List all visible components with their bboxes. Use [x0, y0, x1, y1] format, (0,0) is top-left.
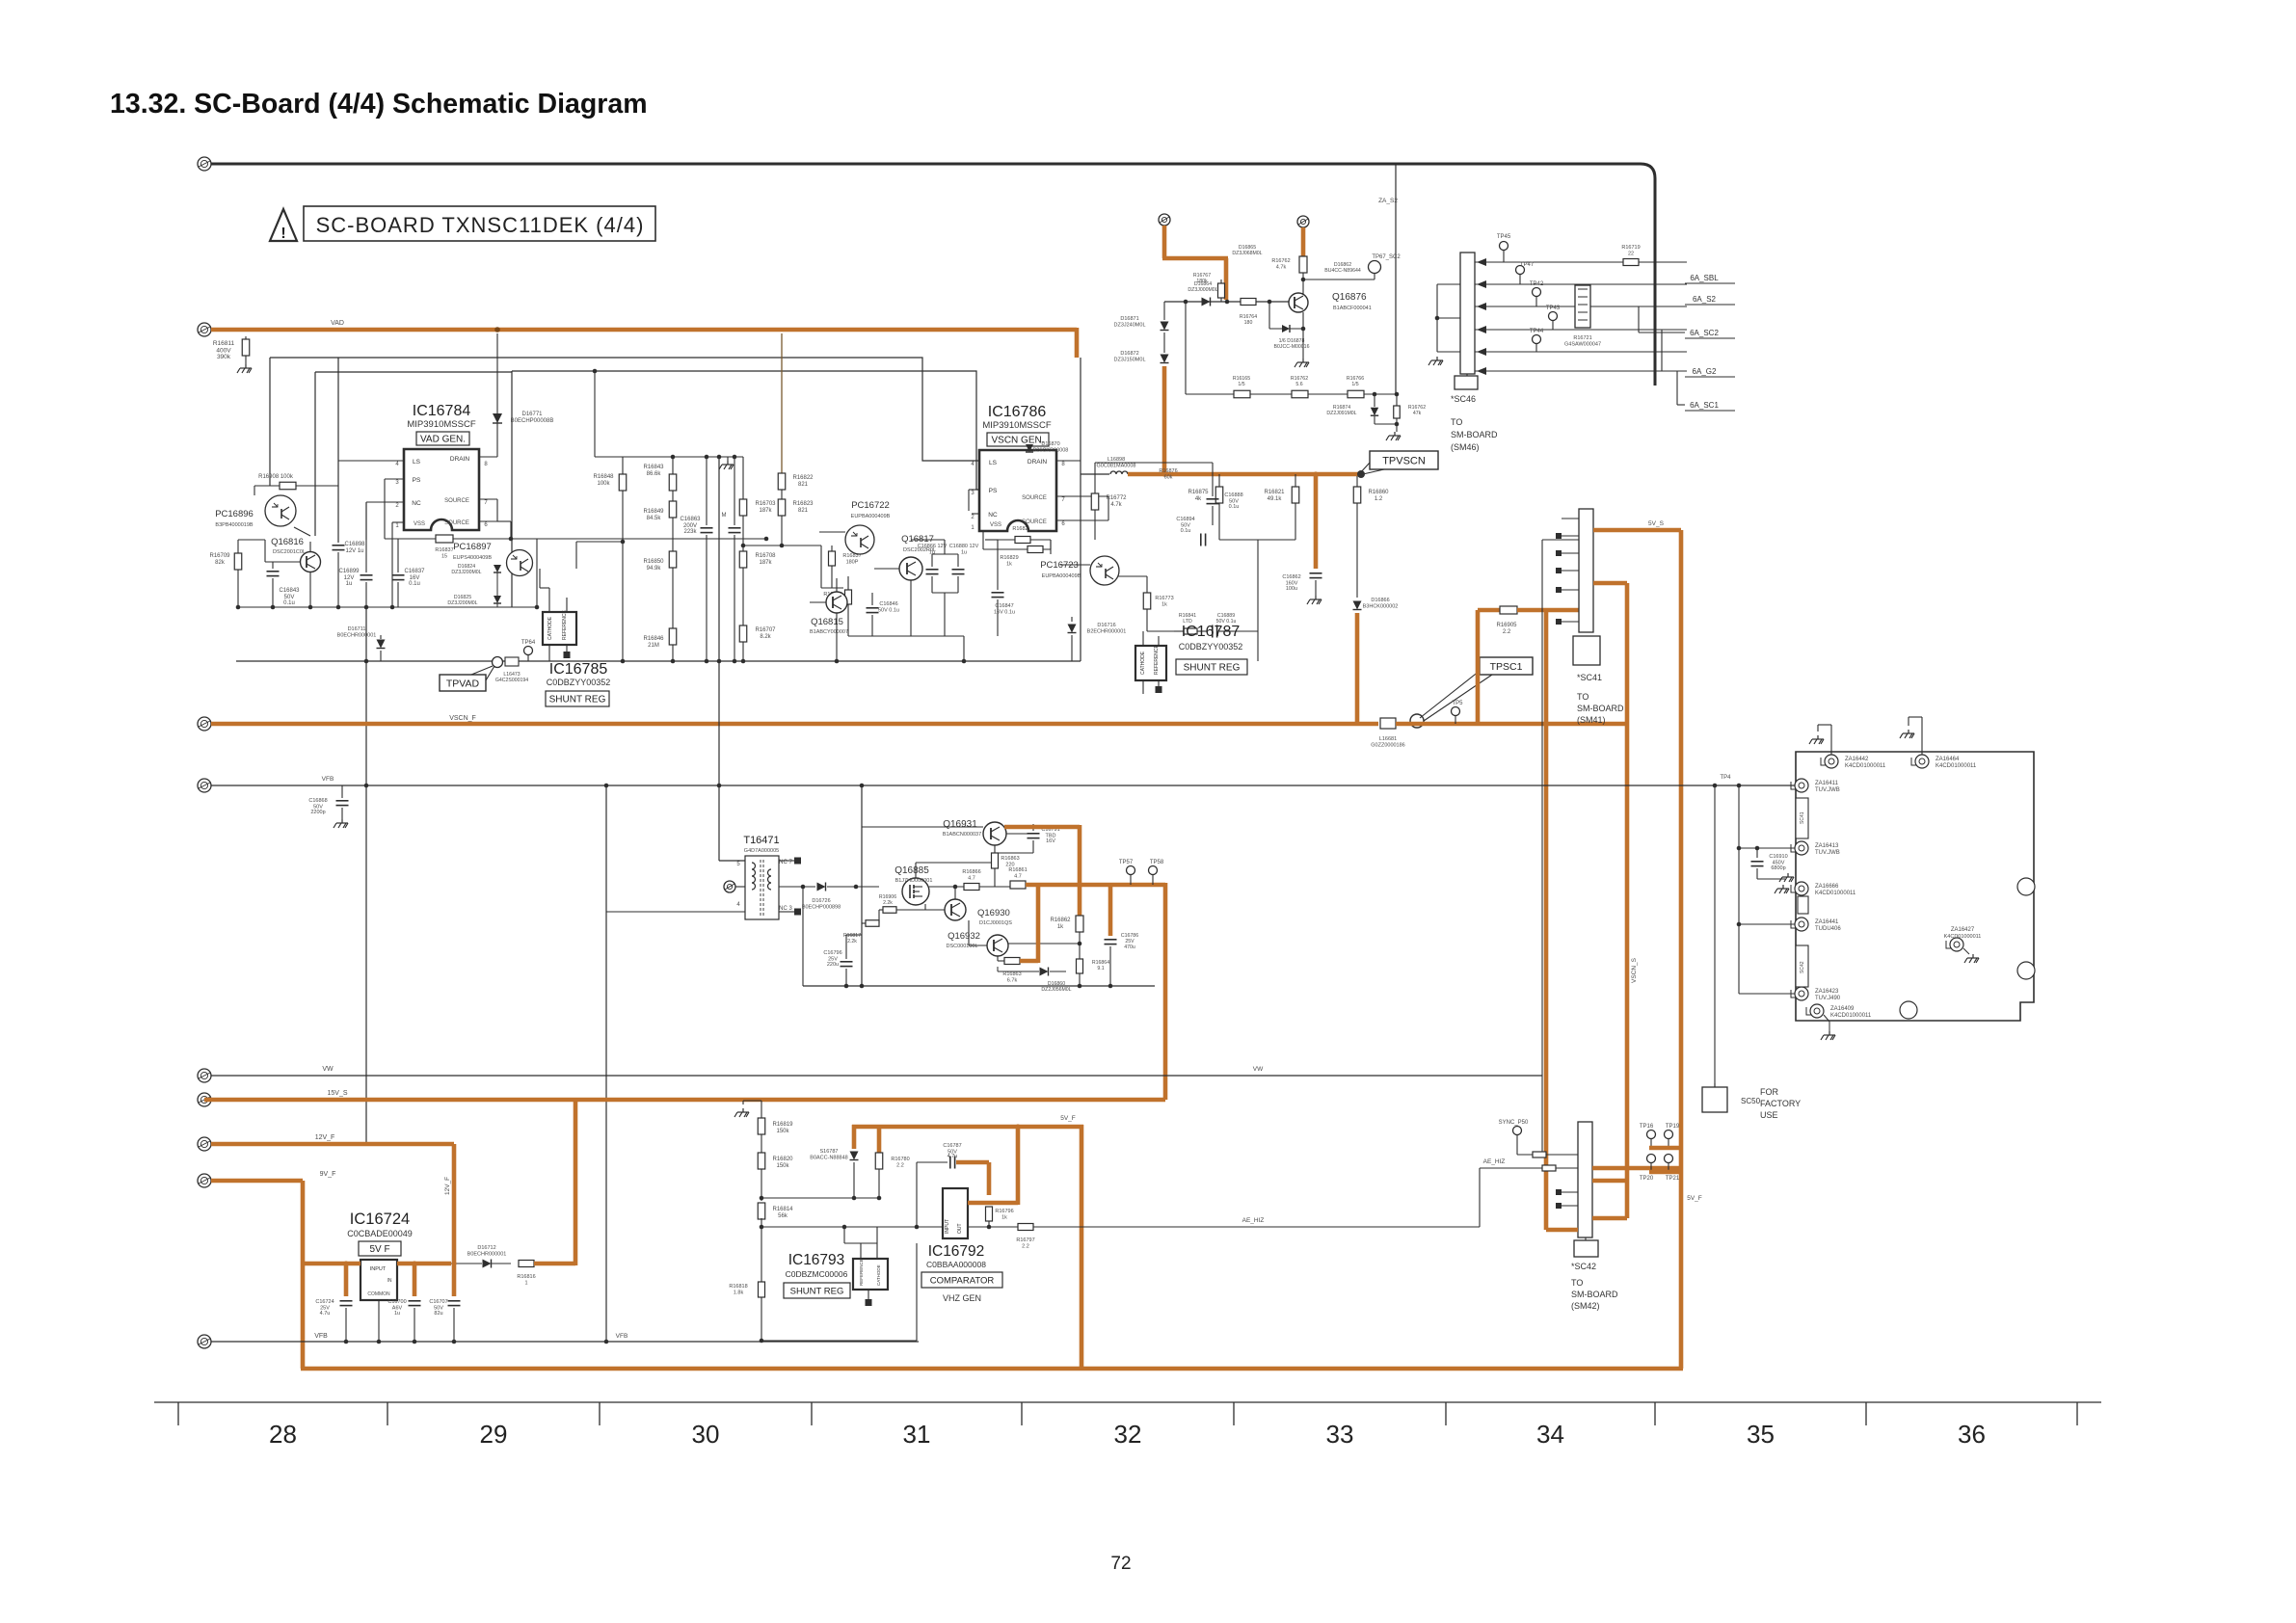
resistor R16860 hang	[1356, 476, 1358, 487]
svg-text:DSC2001C0L: DSC2001C0L	[273, 549, 306, 555]
connector pin at left y=1141	[198, 1093, 211, 1106]
svg-text:50V 0.1u: 50V 0.1u	[878, 608, 899, 614]
terminal squares T16471	[779, 860, 794, 862]
svg-text:2.2k: 2.2k	[883, 900, 893, 906]
callout TPVSCN	[1370, 451, 1438, 469]
svg-text:S16787: S16787	[820, 1149, 839, 1155]
node TPVSCN	[1357, 470, 1365, 478]
svg-text:1u: 1u	[961, 550, 967, 556]
svg-text:C16786: C16786	[1121, 933, 1138, 939]
svg-text:C16843: C16843	[279, 588, 300, 594]
connector SC50 box	[1702, 1087, 1727, 1112]
svg-text:USE: USE	[1760, 1110, 1778, 1120]
svg-text:FACTORY: FACTORY	[1760, 1099, 1801, 1108]
svg-text:R16841: R16841	[1179, 613, 1196, 619]
orange drop TPVSCN to VSCN_F	[1355, 613, 1360, 724]
svg-text:ZA_S2: ZA_S2	[1378, 198, 1398, 204]
svg-text:REFERENCE: REFERENCE	[1154, 644, 1160, 675]
wire PS drop left	[511, 371, 513, 607]
board pin ZA16427	[1950, 938, 1963, 951]
svg-text:SM-BOARD: SM-BOARD	[1451, 430, 1498, 439]
wire AE_HIZ	[968, 1226, 1480, 1228]
resistor R16819	[758, 1118, 765, 1134]
svg-text:R16823: R16823	[792, 501, 814, 507]
svg-text:1k: 1k	[1001, 1215, 1007, 1221]
svg-text:TP45: TP45	[1497, 234, 1511, 240]
node TPVAD	[493, 657, 503, 668]
connector pin at left y=1187	[198, 1137, 211, 1151]
svg-text:0.1u: 0.1u	[1229, 504, 1240, 510]
pin circle B1	[1159, 214, 1170, 226]
board pin ZA16423	[1795, 987, 1808, 1000]
svg-text:C16898: C16898	[344, 542, 365, 547]
svg-text:R16905: R16905	[1496, 623, 1517, 628]
warning triangle	[270, 209, 297, 241]
shunt IC16793 box	[853, 1259, 888, 1290]
wire SC46 row 5	[1475, 351, 1687, 353]
wire sync row	[1517, 1154, 1578, 1156]
resistor R16905 on orange	[1478, 608, 1500, 613]
connector pin at left y=751	[198, 717, 211, 731]
opto PC16723	[1090, 556, 1119, 585]
wire long vertical x380	[365, 502, 367, 540]
resistor R16811	[245, 336, 247, 339]
svg-text:*SC41: *SC41	[1577, 673, 1602, 682]
svg-text:TP67_SC2: TP67_SC2	[1372, 254, 1401, 260]
svg-text:NC: NC	[988, 512, 998, 519]
resistor R16709	[237, 540, 239, 553]
resistor R16814	[758, 1203, 765, 1219]
board pin ZA16409	[1810, 1004, 1824, 1018]
svg-text:COMPARATOR: COMPARATOR	[930, 1275, 995, 1286]
capacitor C16707	[452, 1264, 457, 1296]
wire SC46 row 2	[1475, 283, 1687, 285]
diode D16872	[1161, 355, 1169, 363]
wire PS bus lower	[512, 371, 979, 490]
svg-text:5V F: 5V F	[369, 1244, 389, 1255]
resistor R16773	[1146, 586, 1148, 593]
wire y566 row	[743, 545, 821, 546]
wire baseline main	[236, 660, 1081, 662]
diode D16860	[1040, 968, 1049, 976]
svg-text:MIP3910MSSCF: MIP3910MSSCF	[407, 419, 475, 430]
ruler tick	[1021, 1402, 1023, 1425]
svg-text:PC16897: PC16897	[453, 542, 492, 552]
svg-text:ZA16423: ZA16423	[1815, 989, 1839, 995]
svg-text:29: 29	[480, 1420, 508, 1449]
test point TP43	[1549, 312, 1558, 321]
svg-text:SOURCE: SOURCE	[1022, 495, 1047, 501]
test point TP58	[1149, 866, 1158, 875]
svg-text:15V_S: 15V_S	[327, 1090, 347, 1097]
svg-text:R16843: R16843	[643, 465, 664, 470]
ruler tick	[1865, 1402, 1867, 1425]
wire vertical x629	[605, 785, 607, 1342]
wire SC46 row 1	[1475, 261, 1687, 263]
diode D16874 zener	[1374, 394, 1375, 407]
diode D16711	[377, 640, 386, 649]
svg-text:TP44: TP44	[1530, 329, 1544, 334]
inductor L16473	[505, 657, 519, 666]
resistor R16816	[519, 1261, 534, 1267]
resistor R16908	[254, 485, 280, 487]
wire shunt box wires	[548, 588, 550, 612]
svg-text:2200p: 2200p	[310, 810, 325, 815]
svg-text:C16880 12V: C16880 12V	[949, 544, 979, 549]
resistor R16820	[758, 1153, 765, 1169]
ruler tick	[2076, 1402, 2078, 1425]
resistor R16837b	[831, 545, 833, 551]
wire outer bus drop x280	[269, 358, 271, 486]
svg-text:TO: TO	[1451, 417, 1462, 427]
svg-text:C16847: C16847	[995, 603, 1013, 609]
svg-text:R16811: R16811	[213, 340, 235, 347]
svg-text:INPUT: INPUT	[370, 1266, 387, 1272]
svg-text:2.2k: 2.2k	[847, 939, 857, 945]
board conn SC41 rect	[1796, 798, 1808, 838]
svg-text:R16797: R16797	[1016, 1237, 1034, 1243]
orange vertical x1603	[1544, 610, 1549, 1230]
ground IC16793 top	[734, 1108, 749, 1117]
svg-text:12V_F: 12V_F	[444, 1177, 451, 1195]
orange stub pin B1	[1162, 226, 1167, 258]
svg-text:C16700: C16700	[387, 1299, 406, 1305]
orange vertical x1744	[1679, 530, 1684, 1369]
svg-text:1u: 1u	[346, 581, 353, 587]
wire ic16787 pins	[1142, 631, 1144, 646]
wire top rail	[211, 164, 1655, 386]
svg-text:R16772: R16772	[1106, 495, 1127, 501]
svg-text:SOURCE: SOURCE	[1022, 519, 1047, 525]
svg-text:Q16876: Q16876	[1332, 292, 1367, 303]
diode D16864	[1202, 298, 1211, 306]
resistor R16829	[985, 539, 998, 541]
svg-text:5V_F: 5V_F	[1060, 1115, 1076, 1122]
svg-text:K4CD01000011: K4CD01000011	[1830, 1013, 1872, 1019]
svg-text:R16908 100k: R16908 100k	[258, 474, 294, 480]
svg-text:REFERENCE: REFERENCE	[859, 1259, 864, 1286]
svg-text:COMMON: COMMON	[367, 1291, 390, 1297]
wire c16847 top	[997, 540, 999, 578]
svg-text:C0DBZYY00352: C0DBZYY00352	[1179, 642, 1243, 652]
svg-text:6A_SBL: 6A_SBL	[1690, 274, 1719, 282]
transistor Q16931	[983, 822, 1006, 845]
svg-text:15: 15	[441, 554, 447, 560]
svg-text:100u: 100u	[1286, 586, 1297, 592]
orange IC16724 input	[303, 1262, 360, 1266]
svg-text:B0ACC-N88848: B0ACC-N88848	[810, 1156, 847, 1161]
ground sc46	[1428, 357, 1443, 365]
wire q16816 col	[309, 542, 311, 552]
svg-text:13.32. SC-Board (4/4) Schemati: 13.32. SC-Board (4/4) Schematic Diagram	[110, 89, 648, 120]
svg-text:21M: 21M	[648, 643, 659, 649]
svg-text:56k: 56k	[778, 1213, 788, 1219]
svg-text:TPVSCN: TPVSCN	[1382, 455, 1426, 466]
node TPSC1 ring	[1410, 714, 1424, 728]
wire q16885 top	[915, 863, 917, 878]
svg-text:R16703: R16703	[755, 501, 776, 507]
svg-text:CATHODE: CATHODE	[547, 616, 553, 640]
svg-text:R16849: R16849	[643, 509, 664, 515]
svg-text:C16888: C16888	[1224, 492, 1242, 498]
svg-text:470u: 470u	[1124, 945, 1135, 950]
svg-text:47k: 47k	[1413, 411, 1422, 416]
svg-text:SC42: SC42	[1800, 961, 1805, 973]
svg-text:R16165: R16165	[1233, 376, 1250, 382]
svg-text:IC16793: IC16793	[788, 1252, 845, 1268]
wire ladder top rail	[595, 456, 743, 458]
svg-text:L16473: L16473	[503, 672, 520, 678]
wire board row1	[1542, 785, 1795, 786]
svg-text:4.7u: 4.7u	[948, 1154, 958, 1159]
wire collect row	[761, 1197, 879, 1199]
resistor R16764	[1241, 299, 1256, 306]
connector SC46 tail box	[1455, 376, 1478, 389]
svg-text:R16863: R16863	[1002, 971, 1021, 977]
svg-text:VSS: VSS	[990, 522, 1001, 528]
resistor R16837	[436, 535, 453, 543]
transistor Q16816	[301, 552, 321, 572]
comparator IC16792 box	[943, 1188, 968, 1238]
ground za16427	[1963, 948, 1969, 954]
svg-text:B1J7HD000001: B1J7HD000001	[895, 878, 933, 884]
wire vertical ZA_S2 drop	[1395, 164, 1397, 394]
svg-text:49.1k: 49.1k	[1268, 496, 1283, 502]
svg-text:VAD GEN.: VAD GEN.	[420, 435, 466, 445]
svg-text:EUPBA000409B: EUPBA000409B	[851, 514, 891, 519]
svg-text:SHUNT REG: SHUNT REG	[1184, 663, 1241, 674]
wire board vertical x1804	[1738, 785, 1740, 994]
svg-text:VSCN_S: VSCN_S	[1631, 957, 1638, 983]
pin circle B2	[1297, 216, 1309, 227]
svg-text:VSCN_F: VSCN_F	[449, 715, 476, 722]
capacitor C16787	[949, 1157, 951, 1169]
svg-text:VSS: VSS	[414, 521, 425, 527]
opto PC16896	[265, 495, 296, 526]
orange tp row 2	[1649, 1170, 1683, 1175]
resistor R16849	[669, 501, 677, 518]
test point TP44	[1533, 335, 1541, 344]
wire IC16786 nc stub	[972, 513, 979, 515]
svg-text:FOR: FOR	[1760, 1087, 1778, 1097]
svg-text:6.7k: 6.7k	[1007, 978, 1018, 984]
wire IC16784 drain stub	[479, 456, 497, 458]
svg-text:B2ECHR000001: B2ECHR000001	[1087, 629, 1127, 635]
capacitor C16837	[397, 539, 399, 572]
svg-text:TP19: TP19	[1666, 1124, 1680, 1130]
svg-text:R16846: R16846	[643, 636, 664, 642]
svg-text:K4CD01000011: K4CD01000011	[1944, 934, 1982, 940]
net 12V_F orange trace	[211, 1142, 454, 1147]
svg-text:MIP3910MSSCF: MIP3910MSSCF	[982, 420, 1051, 431]
svg-text:4.7k: 4.7k	[1110, 502, 1122, 508]
wire r16772 top	[1094, 463, 1096, 487]
wire r16875 r16821 join	[1219, 539, 1295, 541]
wire 6A_SC1 jog	[1676, 371, 1678, 405]
ground cluster	[1386, 432, 1401, 440]
SC42 terminal squares	[1556, 1189, 1562, 1195]
connector SC42 tail box	[1574, 1240, 1598, 1257]
diode D16878 bypass	[1268, 302, 1270, 329]
orange riser from VSCN_F to SC41 x1533	[1476, 610, 1481, 726]
svg-text:C16707: C16707	[429, 1299, 447, 1305]
ground za16409	[1824, 1015, 1829, 1022]
svg-text:D16771: D16771	[521, 412, 543, 417]
svg-text:C0DBZYY00352: C0DBZYY00352	[547, 678, 611, 687]
wire pc16723	[1060, 564, 1090, 566]
svg-text:R16818: R16818	[729, 1284, 747, 1290]
svg-text:12V_F: 12V_F	[315, 1134, 335, 1141]
resistor R16762v	[1396, 394, 1398, 406]
svg-text:T16471: T16471	[743, 835, 779, 846]
wire q16815	[810, 601, 826, 603]
test point TP19	[1665, 1131, 1673, 1139]
svg-text:VW: VW	[322, 1066, 334, 1073]
svg-text:D16866: D16866	[1371, 598, 1389, 603]
svg-text:D16824: D16824	[458, 564, 475, 570]
resistor R16822	[778, 473, 786, 490]
svg-text:32: 32	[1114, 1420, 1142, 1449]
diode D16712	[483, 1260, 492, 1268]
svg-text:R16866: R16866	[962, 869, 980, 875]
svg-text:TP4: TP4	[1720, 775, 1731, 781]
svg-text:DZ3J000M0L: DZ3J000M0L	[1188, 287, 1217, 293]
svg-text:180: 180	[1244, 320, 1253, 326]
transistor Q16932	[987, 935, 1008, 956]
svg-text:PS: PS	[413, 477, 421, 484]
svg-text:12V 1u: 12V 1u	[345, 548, 363, 554]
resistor R16823	[778, 499, 786, 516]
svg-text:PC16722: PC16722	[851, 500, 890, 511]
svg-text:D16711: D16711	[348, 626, 366, 632]
test point TP45	[1500, 242, 1508, 251]
svg-text:L16898: L16898	[1108, 457, 1125, 463]
svg-text:86.6k: 86.6k	[647, 471, 662, 477]
wire D16862 row	[1303, 279, 1375, 280]
resistor R16875 hang	[1218, 474, 1220, 487]
svg-text:D16825: D16825	[454, 595, 471, 600]
svg-text:TP42: TP42	[1530, 281, 1544, 287]
svg-text:TUV.JWB: TUV.JWB	[1815, 787, 1840, 793]
svg-text:R16848: R16848	[593, 474, 614, 480]
svg-text:94.9k: 94.9k	[647, 566, 662, 572]
net VAD orange trace	[211, 328, 1077, 333]
board conn SC42 rect	[1796, 945, 1808, 987]
svg-text:TO: TO	[1571, 1278, 1583, 1288]
resistor R16796	[986, 1207, 993, 1221]
svg-text:SC41: SC41	[1800, 811, 1805, 824]
wire rail VFB	[211, 1341, 919, 1343]
svg-text:33: 33	[1326, 1420, 1354, 1449]
test point TP57	[1127, 866, 1135, 875]
svg-text:1u: 1u	[929, 550, 935, 556]
diode D16824	[494, 565, 501, 572]
inductor L16896	[1081, 473, 1109, 475]
wire IC16784 PS stub	[385, 478, 404, 480]
wire q16932 base	[969, 945, 987, 946]
net VSCN orange trace y492	[1128, 472, 1361, 477]
wire top right rail	[1095, 462, 1213, 464]
svg-text:4.7k: 4.7k	[1276, 265, 1287, 271]
orange drop x1365 to cap	[1314, 474, 1319, 569]
svg-text:C16899: C16899	[338, 569, 360, 574]
wire board row4	[1739, 993, 1795, 995]
wire inner bus drop x327	[314, 372, 316, 536]
svg-text:IC16792: IC16792	[928, 1243, 985, 1260]
callout TPSC1	[1480, 657, 1533, 675]
capacitor C16843	[272, 562, 274, 569]
svg-text:SHUNT REG: SHUNT REG	[790, 1286, 844, 1296]
svg-text:R16822: R16822	[792, 475, 814, 481]
wire to IC16792	[761, 1226, 943, 1228]
svg-text:VFB: VFB	[314, 1333, 328, 1340]
svg-text:D16862: D16862	[1334, 262, 1351, 268]
svg-text:IC16724: IC16724	[350, 1211, 410, 1228]
connector pin at left y=1392	[198, 1335, 211, 1348]
svg-text:M: M	[722, 513, 727, 519]
function box VAD GEN.	[416, 432, 469, 445]
wire IC16784 source stubs	[479, 498, 497, 500]
capacitor C16894	[1200, 534, 1202, 546]
svg-text:VFB: VFB	[322, 776, 334, 783]
svg-text:C16889: C16889	[1217, 613, 1235, 619]
wire c16796 top	[845, 935, 847, 949]
wire y610 row	[821, 587, 843, 589]
wire vertical x746	[718, 457, 720, 861]
board outline (to CRT socket board)	[1796, 752, 2034, 1021]
resistor R16866	[964, 884, 979, 891]
board pin ZA16464	[1915, 755, 1929, 768]
svg-text:C16868: C16868	[308, 798, 327, 804]
svg-text:100k: 100k	[597, 481, 610, 487]
wire 6A_G2 jog	[1661, 330, 1663, 371]
regulator IC16724 box	[360, 1260, 397, 1300]
wire IC16784 VSS stub	[392, 521, 404, 523]
ruler tick	[177, 1402, 179, 1425]
orange stub pin B2	[1301, 227, 1306, 256]
wire q16931 collector	[994, 845, 996, 853]
svg-text:IC16787: IC16787	[1182, 624, 1241, 640]
svg-text:TPVAD: TPVAD	[446, 678, 480, 689]
svg-text:1: 1	[524, 1281, 527, 1287]
test point TP20	[1647, 1155, 1656, 1163]
svg-text:D16871: D16871	[1120, 316, 1138, 322]
svg-text:SOURCE: SOURCE	[444, 498, 469, 504]
svg-text:821: 821	[798, 508, 809, 514]
svg-text:R16721: R16721	[1573, 335, 1591, 341]
capacitor C16863	[706, 457, 707, 525]
svg-text:1k: 1k	[1006, 562, 1012, 568]
wire LS drop left	[337, 358, 339, 543]
svg-text:150k: 150k	[776, 1129, 789, 1134]
svg-text:R16850: R16850	[643, 559, 664, 565]
svg-text:R16862: R16862	[1050, 918, 1071, 923]
board hole 3	[1900, 1001, 1917, 1019]
svg-text:0.1u: 0.1u	[409, 581, 420, 587]
test point TP5	[1452, 707, 1460, 716]
svg-text:ZA16409: ZA16409	[1830, 1006, 1855, 1012]
resistor R16828	[847, 576, 849, 590]
connector pin at left y=815	[198, 779, 211, 792]
capacitor C16889	[1212, 625, 1214, 638]
svg-text:K4CD01000011: K4CD01000011	[1845, 763, 1886, 769]
svg-text:C16866 12V: C16866 12V	[918, 544, 948, 549]
orange drop x1152	[1108, 885, 1113, 936]
svg-text:1k: 1k	[1161, 602, 1167, 608]
wire cluster bottom rail	[238, 606, 537, 608]
svg-text:1/5: 1/5	[1238, 382, 1244, 387]
callout TPVAD	[440, 675, 486, 691]
